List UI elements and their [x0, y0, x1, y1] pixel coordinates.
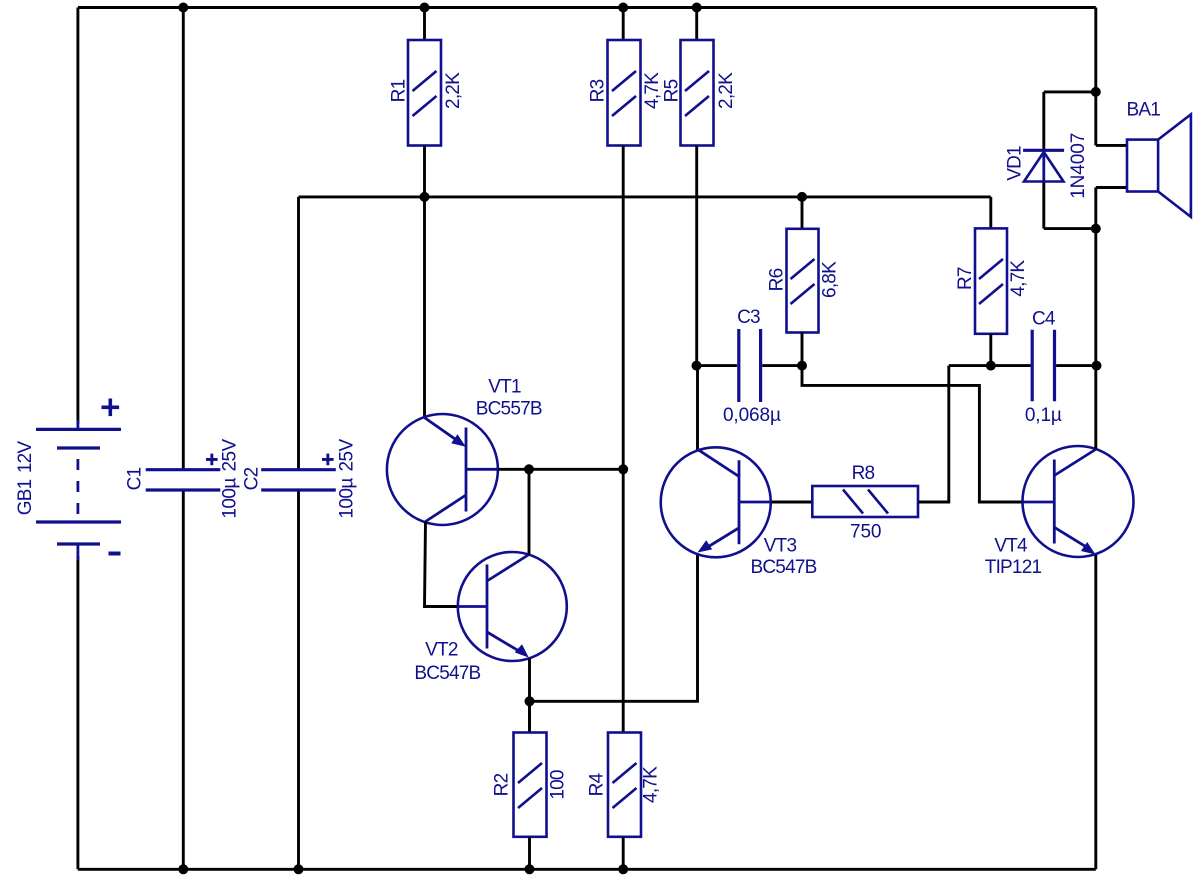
wire right rail top — [1094, 8, 1097, 146]
resistor R8 — [812, 486, 918, 517]
wire R8 left (VT3 base) — [771, 501, 812, 504]
svg-text:0,1µ: 0,1µ — [1025, 405, 1062, 426]
svg-text:C2: C2 — [242, 467, 263, 490]
svg-text:BC547B: BC547B — [414, 663, 480, 684]
battery GB1 — [36, 399, 121, 561]
junction R7 bottom — [986, 361, 996, 371]
wire VT1 collector down — [425, 522, 458, 607]
junction VT1 base / VT2 collector — [524, 464, 534, 474]
svg-text:VT4: VT4 — [994, 535, 1028, 556]
junction top rail / R5 — [692, 3, 702, 13]
capacitor C3 — [739, 329, 761, 402]
junction VT2 emitter / R2 — [525, 696, 535, 706]
svg-text:VT1: VT1 — [488, 377, 521, 398]
transistor VT3 — [661, 447, 771, 557]
svg-text:R4: R4 — [587, 772, 608, 796]
svg-text:BC547B: BC547B — [751, 557, 817, 578]
svg-text:100: 100 — [547, 770, 568, 800]
wire R4 bottom — [622, 837, 625, 870]
diode VD1 — [1023, 150, 1064, 181]
junction C3 right / R6 — [797, 361, 807, 371]
wire R5 top stub — [695, 8, 698, 41]
svg-text:C4: C4 — [1032, 309, 1056, 330]
wire C4 line right — [1056, 364, 1096, 367]
wire mid horizontal y=197 — [299, 195, 991, 198]
svg-text:GB1 12V: GB1 12V — [15, 441, 36, 516]
transistor VT2 — [458, 552, 567, 661]
junction bottom rail / C1 — [178, 864, 188, 874]
transistor VT1 — [387, 414, 498, 525]
junction bottom rail / R2 — [525, 864, 535, 874]
svg-text:2,2K: 2,2K — [716, 72, 737, 109]
junction C4 right / VT4 collector line — [1092, 361, 1102, 371]
wire R6 node down-right to VT4 base — [802, 366, 1023, 502]
svg-text:1N4007: 1N4007 — [1068, 133, 1089, 199]
svg-text:2,2K: 2,2K — [443, 72, 464, 109]
svg-text:BA1: BA1 — [1127, 100, 1161, 121]
svg-text:4,7K: 4,7K — [642, 72, 663, 109]
wire C4 line left — [949, 364, 1031, 367]
wire C2 corner vertical — [297, 197, 300, 470]
wire C1 vertical top — [182, 8, 185, 470]
svg-text:R1: R1 — [389, 79, 410, 102]
wire R3 bottom long — [622, 146, 625, 733]
wire top rail — [78, 6, 1096, 9]
wire R5 bottom to C3 node — [695, 146, 698, 366]
resistor R4 — [608, 733, 641, 837]
svg-text:6,8K: 6,8K — [820, 261, 841, 298]
junction mid line / R6 — [797, 192, 807, 202]
wire right rail bottom (VT4 emitter) — [1094, 555, 1097, 869]
wire R1 top stub — [423, 8, 426, 41]
svg-text:R3: R3 — [588, 79, 609, 102]
wire right rail mid — [1094, 188, 1097, 450]
capacitor C1 — [146, 454, 221, 490]
wire C3 line right — [762, 364, 802, 367]
wire left vertical (battery branch top) — [76, 8, 79, 425]
junction VD1 top — [1091, 87, 1101, 97]
svg-text:C1: C1 — [125, 467, 146, 490]
wire C3 line left — [697, 364, 738, 367]
wire VT1 base to nodes — [498, 468, 623, 471]
svg-text:R8: R8 — [852, 463, 875, 484]
svg-text:R5: R5 — [661, 79, 682, 102]
junction VD1 bottom — [1091, 224, 1101, 234]
transistor VT4 — [1023, 446, 1134, 557]
svg-text:R6: R6 — [767, 268, 788, 291]
wire VD1 bottom — [1044, 227, 1096, 230]
wire emitter junction to VT3 emitter — [530, 555, 698, 702]
wire C2 vertical bottom — [297, 490, 300, 869]
svg-text:VT2: VT2 — [425, 639, 458, 660]
wire VD1 stub top — [1042, 92, 1045, 150]
svg-text:C3: C3 — [737, 307, 760, 328]
wire R7 top stub — [989, 197, 992, 229]
svg-text:4,7K: 4,7K — [640, 766, 661, 803]
capacitor C2 — [261, 454, 336, 490]
wire speaker bottom — [1096, 186, 1127, 189]
junction bottom rail / R4 — [618, 864, 628, 874]
svg-text:BC557B: BC557B — [476, 398, 542, 419]
junction mid line / R1 — [420, 192, 430, 202]
junction top rail / C1 — [178, 3, 188, 13]
resistor R1 — [408, 40, 441, 146]
wire VD1 top — [1044, 90, 1096, 93]
junction top rail / R1 — [420, 3, 430, 13]
svg-text:4,7K: 4,7K — [1008, 260, 1029, 297]
wire R6 top stub — [801, 197, 804, 229]
wire VT2/R2 junction to R2 — [528, 701, 531, 732]
svg-text:750: 750 — [850, 521, 881, 542]
wire bottom rail — [78, 868, 1096, 871]
junction bottom rail / C2 — [294, 864, 304, 874]
resistor R6 — [787, 229, 819, 333]
resistor R5 — [681, 40, 714, 146]
wire R8 right up to C4 line — [918, 366, 949, 502]
wire R7 bottom — [989, 334, 992, 366]
resistor R2 — [514, 733, 547, 837]
junction C3 left / R5 line — [692, 361, 702, 371]
junction top rail / R3 — [618, 3, 628, 13]
wire VT2 emitter down — [528, 659, 531, 733]
wire VD1 stub bottom — [1042, 180, 1045, 229]
junction VT1 base / R3-R4 — [618, 464, 628, 474]
wire R3 top stub — [622, 8, 625, 41]
svg-text:100µ 25V: 100µ 25V — [220, 438, 241, 518]
speaker BA1 — [1127, 114, 1191, 216]
svg-text:R2: R2 — [492, 773, 513, 796]
svg-text:R7: R7 — [955, 267, 976, 290]
wire left vertical (battery branch bottom) — [76, 556, 79, 869]
svg-text:100µ 25V: 100µ 25V — [337, 438, 358, 518]
wire R2 bottom — [528, 837, 531, 870]
resistor R3 — [608, 40, 641, 146]
wire speaker top — [1096, 144, 1127, 147]
capacitor C4 — [1032, 330, 1054, 402]
resistor R7 — [975, 228, 1007, 333]
wire C1 vertical bottom — [182, 490, 185, 869]
wire R6 bottom — [801, 333, 804, 366]
svg-text:TIP121: TIP121 — [985, 557, 1042, 578]
wire VT2 collector up — [528, 469, 531, 554]
wire R1 bottom to VT1 — [423, 146, 426, 418]
svg-text:0,068µ: 0,068µ — [723, 405, 781, 426]
wire C3 node to VT3 collector — [696, 366, 699, 450]
svg-text:VD1: VD1 — [1004, 146, 1025, 181]
svg-text:VT3: VT3 — [764, 535, 797, 556]
